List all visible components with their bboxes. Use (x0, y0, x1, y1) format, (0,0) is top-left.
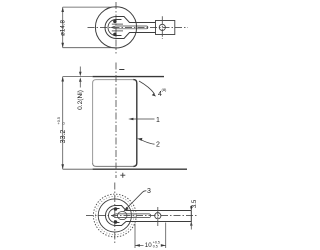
top view tag end rectangle (156, 21, 175, 35)
bottom view cell outline dashed circle (93, 194, 136, 237)
bottom view seal inner outline (109, 209, 120, 223)
bottom view horizontal centerline (86, 215, 197, 217)
top view tag hole (159, 24, 165, 30)
svg-text:(8): (8) (162, 87, 168, 92)
top view cell outline circle (95, 7, 136, 48)
dimension 33.2 line (62, 77, 64, 170)
dimension dia 14.8 top arrow (61, 7, 64, 12)
label 1 arrowhead (128, 118, 133, 120)
top view pin lower (113, 33, 117, 37)
dimension 33.2 top arrow (61, 77, 64, 82)
dimension 3.5 upper line (190, 206, 192, 211)
svg-text:+0.5: +0.5 (57, 117, 61, 125)
svg-text:0: 0 (62, 122, 66, 124)
bottom view weld stadium (118, 212, 128, 220)
label 2 leader (140, 139, 155, 144)
label 3 arrowhead (123, 207, 129, 212)
dimension dia 14.8 line (62, 7, 64, 48)
bottom view knurl dotted circle (96, 196, 134, 234)
svg-text:10: 10 (145, 242, 152, 249)
top view seal/tag outer outline (horseshoe + neck) (105, 17, 156, 39)
dimension 10 right arrow (161, 244, 166, 247)
svg-text:ø14.8: ø14.8 (60, 20, 67, 36)
dimension 3.5 lower arrow (190, 222, 193, 226)
label 4 leader (139, 81, 155, 94)
svg-text:3.5: 3.5 (192, 199, 198, 208)
svg-text:0.5: 0.5 (153, 245, 158, 249)
bottom view crimp slot (112, 214, 151, 218)
front view battery body bottom edge (93, 163, 134, 166)
front view bottom tag plate (63, 168, 93, 170)
bottom view pin lower (114, 220, 118, 224)
dimension 0.2(N) upper line (79, 67, 81, 74)
dimension 10 line (135, 244, 166, 246)
dimension 0.2(N) lower arrow (79, 77, 82, 81)
bottom view tag hole (155, 213, 161, 219)
label 1 leader (131, 118, 155, 120)
svg-text:4: 4 (158, 91, 162, 98)
top view horizontal centerline (88, 26, 189, 28)
top view hole vertical centerline (161, 16, 163, 39)
bottom view vertical centerline (114, 183, 116, 245)
label 4 arrowhead (152, 93, 156, 97)
svg-text:1: 1 (156, 117, 160, 124)
front view battery body left and top edges (93, 80, 134, 163)
label 2 arrowhead (137, 138, 142, 141)
bottom view inner solid circle (98, 199, 131, 232)
top view seal inner outline (108, 20, 122, 36)
top view vertical centerline (115, 2, 117, 54)
dimension dia 14.8 top extension line (63, 6, 117, 8)
dimension 3.5 lower line (190, 222, 192, 230)
label 3 leader (125, 191, 146, 210)
dimension 10 left extension line (134, 224, 136, 249)
front view top tag plate (63, 76, 93, 78)
dimension 10 right extension line (165, 223, 167, 249)
bottom view hole vertical centerline (157, 207, 159, 226)
top view weld plate lower edge (112, 30, 123, 32)
dimension 3.5 upper arrow (190, 206, 193, 210)
front view vertical centerline (115, 63, 117, 179)
plus polarity mark (120, 173, 125, 178)
bottom view seal outer outline (106, 206, 192, 226)
top view pin upper (113, 20, 117, 24)
top view crimp slot (111, 26, 148, 29)
svg-text:0.2(Ni): 0.2(Ni) (77, 90, 84, 110)
bottom view pin upper (114, 207, 118, 211)
svg-text:33.2: 33.2 (60, 130, 67, 144)
minus polarity mark (119, 69, 124, 71)
top view weld plate upper edge (112, 23, 123, 25)
svg-text:3: 3 (147, 188, 151, 195)
dimension 0.2(N) upper arrow (79, 72, 82, 76)
dimension 33.2 bottom arrow (61, 164, 64, 169)
dimension 10 left arrow (135, 244, 140, 247)
svg-text:2: 2 (156, 142, 160, 149)
dimension dia 14.8 bottom extension line (63, 47, 117, 49)
dimension 0.2(N) lower line (79, 81, 81, 88)
dimension dia 14.8 bottom arrow (61, 43, 64, 48)
front view battery body right edge (133, 80, 137, 167)
